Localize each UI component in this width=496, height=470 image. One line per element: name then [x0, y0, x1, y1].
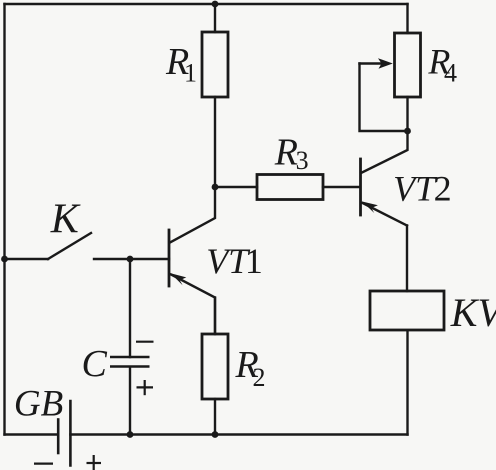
svg-text:GB: GB [14, 384, 63, 425]
label R4 [427, 41, 457, 87]
rheostat wiper of R4 [360, 58, 408, 131]
wire R3 right lead [323, 186, 360, 188]
relay KV [370, 291, 444, 330]
resistor R2 [202, 334, 228, 399]
label VT1 [206, 241, 263, 281]
svg-text:2: 2 [253, 363, 266, 392]
resistor R4 [395, 33, 421, 97]
wire left border [3, 4, 5, 435]
resistor R1 [202, 32, 228, 97]
wire R4 bottom lead [406, 97, 408, 131]
svg-text:3: 3 [296, 146, 309, 175]
wire R1 bottom lead [214, 97, 216, 187]
wire R4 top lead [406, 4, 408, 33]
node base junction A [212, 184, 219, 191]
svg-text:1: 1 [184, 58, 197, 87]
transistor VT1 [169, 187, 215, 334]
label R1 [165, 41, 197, 87]
wire KV top lead [406, 226, 408, 292]
node capacitor tap [127, 256, 134, 263]
label C minus [136, 341, 154, 343]
capacitor C [110, 259, 150, 435]
transistor VT2 [361, 131, 408, 226]
node left-border switch junction [1, 256, 8, 263]
label GB minus [34, 463, 53, 465]
wire bottom left segment [5, 433, 59, 435]
wire KV bottom lead [406, 330, 408, 435]
node top junction [212, 1, 219, 8]
battery GB [58, 401, 70, 466]
svg-text:K: K [50, 197, 81, 243]
wire top border [5, 3, 408, 5]
svg-text:KV: KV [450, 290, 496, 335]
node R2 bottom junction [212, 431, 219, 438]
resistor R3 [257, 175, 323, 200]
wire R3 left lead [215, 186, 257, 188]
svg-text:R: R [274, 131, 298, 173]
svg-text:4: 4 [444, 59, 457, 88]
label C plus [137, 380, 154, 395]
wire VT1 emitter to R2 [214, 298, 216, 335]
label GB plus [87, 455, 102, 470]
label VT2 [393, 169, 452, 209]
node C bottom junction [127, 431, 134, 438]
svg-text:1: 1 [245, 241, 263, 281]
svg-text:C: C [82, 343, 108, 385]
wire bottom right segment [70, 433, 407, 435]
label R3 [274, 131, 309, 175]
svg-text:VT: VT [393, 169, 438, 209]
svg-text:2: 2 [434, 169, 452, 209]
wire switch to VT1 base [94, 258, 169, 260]
label R2 [235, 344, 266, 392]
switch K [5, 233, 92, 259]
wire R2 bottom lead [214, 399, 216, 435]
wire R1 top lead [214, 4, 216, 32]
node R4 bottom junction [404, 128, 411, 135]
